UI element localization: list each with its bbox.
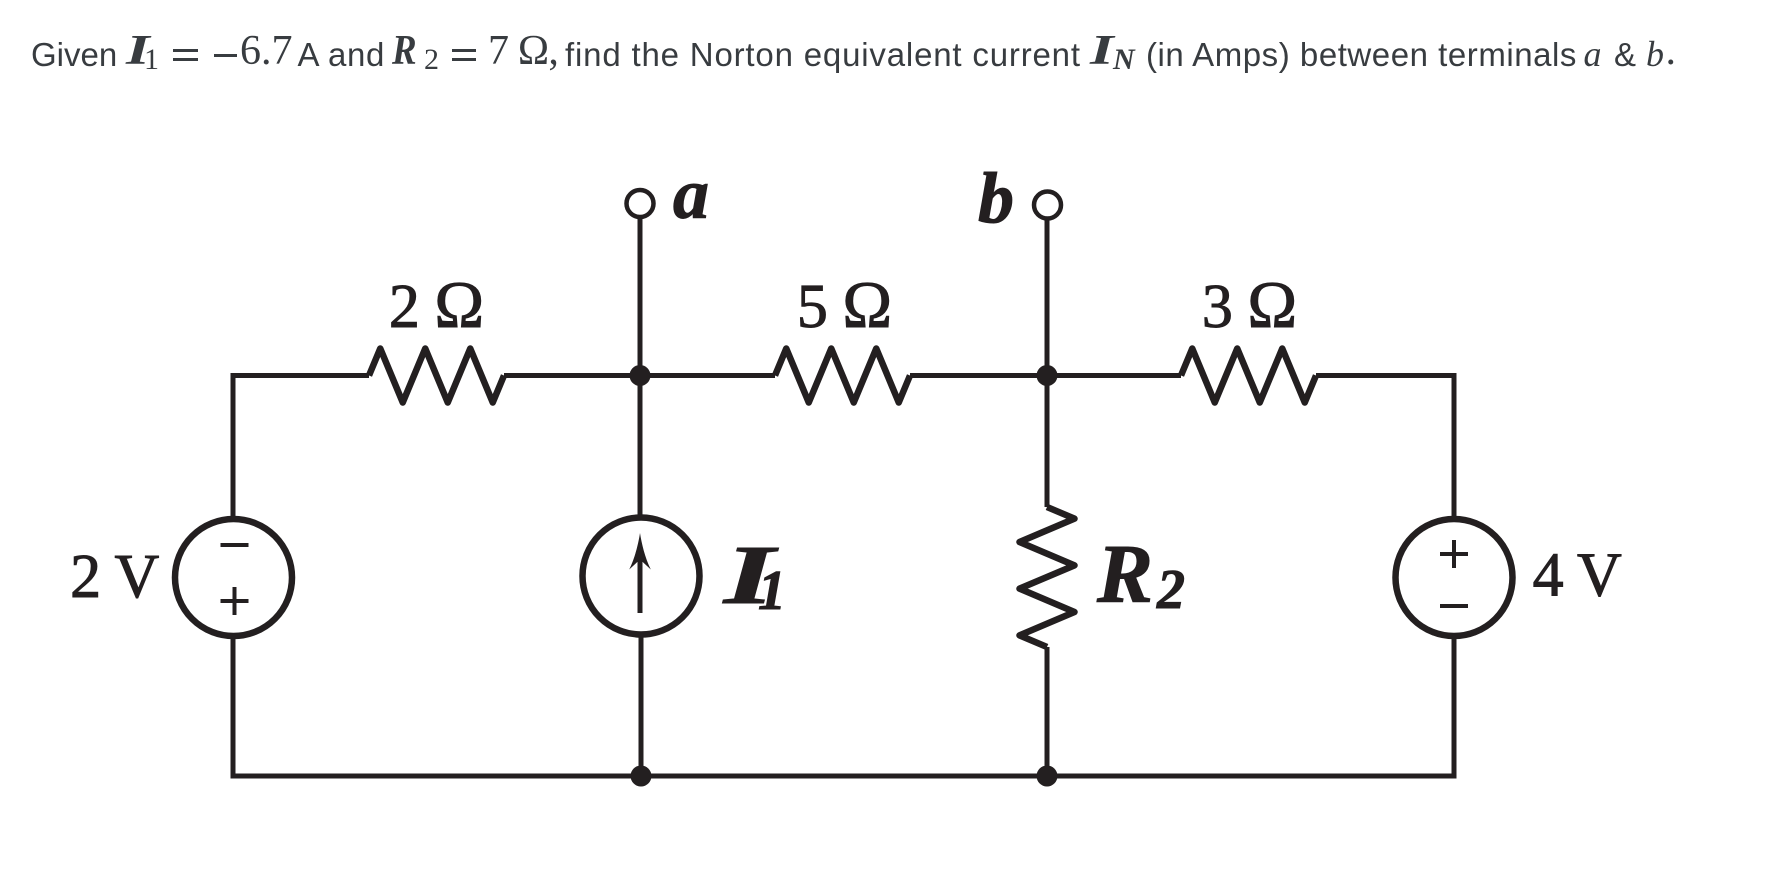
title: a <box>1584 36 1602 72</box>
svg-text:2 Ω: 2 Ω <box>389 268 484 342</box>
title: ampersand <box>1614 38 1636 71</box>
wire left branch upper <box>231 373 236 520</box>
4V minus sign <box>1440 604 1468 608</box>
title: equals 1 <box>173 49 198 52</box>
wire top between 2ohm and node a <box>504 373 775 378</box>
junction dot node a top <box>630 365 651 386</box>
wire bottom horizontal <box>231 774 1457 779</box>
terminal a circle <box>627 190 654 217</box>
title: equals 2 <box>452 49 477 52</box>
resistor 2 ohm zigzag <box>369 349 504 403</box>
terminal b circle <box>1034 192 1061 219</box>
svg-text:3 Ω: 3 Ω <box>1202 268 1297 342</box>
wire top left horizontal <box>233 373 369 378</box>
junction dot node a bottom <box>631 766 652 787</box>
title: b <box>1646 36 1664 72</box>
wire node b branch lower <box>1045 647 1050 776</box>
voltage source 4V circle <box>1396 519 1513 636</box>
wire node b branch upper <box>1045 219 1050 507</box>
title: A and <box>298 38 385 71</box>
junction dot node b top <box>1037 365 1058 386</box>
2V minus sign <box>221 543 249 547</box>
wire top between node b and 3ohm <box>910 373 1181 378</box>
svg-text:1: 1 <box>758 560 786 622</box>
junction dot node b bottom <box>1037 766 1058 787</box>
label I1 <box>722 528 779 622</box>
wire top right horizontal <box>1316 373 1454 378</box>
wire node a branch lower <box>639 634 644 776</box>
title: 7 Ohm, <box>488 30 558 72</box>
I1 arrow shaft <box>638 552 643 613</box>
title: find the Norton equivalent current <box>565 38 1081 71</box>
resistor 3 ohm zigzag <box>1181 349 1316 403</box>
svg-text:4 V: 4 V <box>1533 542 1622 610</box>
title: (in Amps) between terminals <box>1146 38 1577 71</box>
resistor R2 vertical zigzag <box>1020 507 1075 647</box>
wire node a branch upper <box>638 217 643 517</box>
svg-text:2 V: 2 V <box>70 543 159 611</box>
voltage source 2V circle <box>175 519 292 636</box>
title: R2 <box>392 30 417 72</box>
svg-text:R: R <box>1096 528 1153 621</box>
svg-text:b: b <box>978 158 1014 238</box>
title: I_N <box>1090 30 1114 72</box>
wire right branch lower <box>1452 636 1457 776</box>
current source I1 circle <box>583 518 700 635</box>
svg-text:2: 2 <box>1156 559 1185 621</box>
I1 arrow head <box>629 533 651 570</box>
title: 6.7 <box>240 30 293 72</box>
title: minus <box>214 54 237 57</box>
2V plus sign <box>221 587 249 615</box>
wire left branch lower <box>231 636 236 776</box>
svg-text:a: a <box>673 154 709 234</box>
resistor 5 ohm zigzag <box>775 349 910 403</box>
4V plus sign <box>1440 540 1468 568</box>
svg-text:5 Ω: 5 Ω <box>797 268 892 342</box>
wire right branch upper <box>1452 373 1457 520</box>
title: period <box>1666 30 1677 72</box>
title: Given <box>31 38 117 71</box>
title: I1 <box>126 30 150 72</box>
